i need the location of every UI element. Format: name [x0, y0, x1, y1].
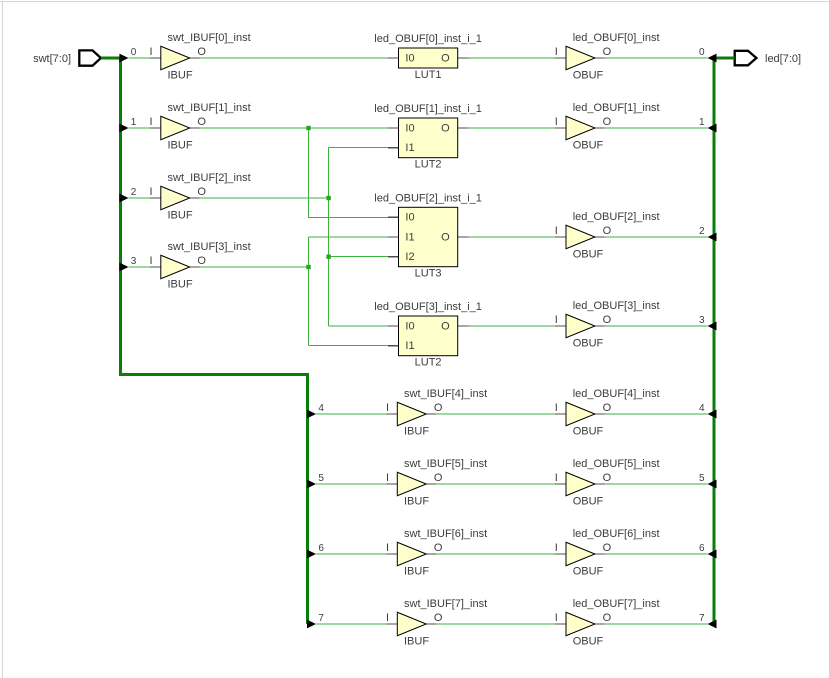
wire swt_IBUF_4 IBUF to OBUF: [436, 413, 555, 415]
svg-text:O: O: [603, 612, 612, 624]
svg-text:6: 6: [699, 543, 705, 554]
svg-text:OBUF: OBUF: [573, 69, 604, 81]
svg-text:I: I: [555, 225, 558, 237]
bus tap swt[4]: [307, 410, 316, 419]
svg-text:O: O: [441, 231, 450, 243]
svg-text:0: 0: [131, 47, 137, 58]
bus tap led[6]: [708, 550, 717, 559]
bus tap led[3]: [708, 322, 717, 331]
svg-text:O: O: [603, 314, 612, 326]
svg-text:I2: I2: [405, 251, 414, 263]
wire LUT to OBUF[2]: [468, 236, 555, 238]
svg-text:3: 3: [131, 256, 137, 267]
svg-text:O: O: [441, 122, 450, 134]
wire swt_IBUF_5 IBUF to OBUF: [436, 483, 555, 485]
svg-text:led_OBUF[7]_inst: led_OBUF[7]_inst: [573, 598, 660, 610]
svg-text:O: O: [434, 612, 443, 624]
svg-text:I: I: [555, 402, 558, 414]
bus tap swt[0]: [119, 54, 128, 63]
wire swt[2] tap to IBUF: [128, 197, 150, 199]
wire swt[0] tap to IBUF: [128, 57, 150, 59]
svg-text:IBUF: IBUF: [404, 495, 429, 507]
svg-text:O: O: [441, 320, 450, 332]
svg-text:O: O: [603, 542, 612, 554]
buffer swt_IBUF[7]_inst (IBUF): [386, 598, 487, 648]
junction swt_IBUF_3: [306, 265, 310, 269]
junction swt_IBUF_2 b: [326, 255, 330, 259]
svg-text:I0: I0: [405, 320, 414, 332]
svg-text:I0: I0: [405, 122, 414, 134]
bus wire led[7:0]: [714, 58, 735, 624]
wire LUT to OBUF[1]: [468, 127, 555, 129]
svg-text:led_OBUF[6]_inst: led_OBUF[6]_inst: [573, 528, 660, 540]
buffer swt_IBUF[0]_inst (IBUF): [150, 32, 251, 82]
svg-text:I: I: [386, 542, 389, 554]
svg-text:I: I: [555, 612, 558, 624]
svg-text:7: 7: [318, 613, 324, 624]
buffer led_OBUF[7]_inst (OBUF): [555, 598, 660, 648]
svg-text:1: 1: [699, 117, 705, 128]
svg-text:4: 4: [699, 403, 705, 414]
svg-text:O: O: [441, 52, 450, 64]
svg-text:O: O: [603, 402, 612, 414]
svg-text:led_OBUF[3]_inst: led_OBUF[3]_inst: [573, 300, 660, 312]
svg-text:6: 6: [318, 543, 324, 554]
svg-text:OBUF: OBUF: [573, 565, 604, 577]
buffer led_OBUF[0]_inst (OBUF): [555, 32, 660, 82]
wire swt_IBUF_3 to LUT2 I1 (lower): [309, 345, 389, 347]
lut led_OBUF[1]_inst_i_1 (LUT2): [374, 103, 482, 170]
wire swt_IBUF_1 to LUT2 I0: [199, 127, 388, 129]
svg-text:O: O: [197, 116, 206, 128]
wire led_OBUF_0 to bus tap: [605, 57, 708, 59]
svg-text:swt_IBUF[1]_inst: swt_IBUF[1]_inst: [168, 102, 251, 114]
svg-text:5: 5: [699, 473, 705, 484]
lut led_OBUF[3]_inst_i_1 (LUT2): [374, 301, 482, 368]
lut led_OBUF[0]_inst_i_1 (LUT1): [374, 33, 482, 81]
svg-text:I: I: [555, 472, 558, 484]
wire swt_IBUF_3 to junction: [199, 266, 308, 268]
wire swt[7] tap to IBUF: [316, 623, 386, 625]
svg-text:I: I: [555, 46, 558, 58]
buffer swt_IBUF[2]_inst (IBUF): [150, 172, 251, 222]
bus tap led[1]: [708, 124, 717, 133]
svg-text:swt[7:0]: swt[7:0]: [33, 53, 71, 65]
buffer swt_IBUF[6]_inst (IBUF): [386, 528, 487, 578]
svg-text:O: O: [197, 46, 206, 58]
junction swt_IBUF_2 a: [326, 196, 330, 200]
svg-text:swt_IBUF[0]_inst: swt_IBUF[0]_inst: [168, 32, 251, 44]
wire led_OBUF_6 to bus tap: [605, 553, 708, 555]
output port led[7:0]: [735, 51, 757, 66]
svg-text:I1: I1: [405, 340, 414, 352]
svg-text:LUT3: LUT3: [415, 268, 442, 280]
svg-text:O: O: [197, 186, 206, 198]
bus tap swt[7]: [307, 620, 316, 629]
panel left border: [2, 1, 4, 678]
svg-text:LUT2: LUT2: [415, 357, 442, 369]
svg-text:0: 0: [699, 47, 705, 58]
wire swt_IBUF_2 vertical: [328, 148, 330, 326]
svg-text:swt_IBUF[3]_inst: swt_IBUF[3]_inst: [168, 241, 251, 253]
buffer led_OBUF[1]_inst (OBUF): [555, 102, 660, 152]
wire swt[6] tap to IBUF: [316, 553, 386, 555]
bus tap led[4]: [708, 410, 717, 419]
wire swt_IBUF_6 IBUF to OBUF: [436, 553, 555, 555]
svg-text:OBUF: OBUF: [573, 139, 604, 151]
buffer swt_IBUF[3]_inst (IBUF): [150, 241, 251, 290]
wire LUT to OBUF[3]: [468, 325, 555, 327]
buffer led_OBUF[2]_inst (OBUF): [555, 211, 660, 260]
svg-text:I1: I1: [405, 231, 414, 243]
wire swt_IBUF_2 to junction: [199, 197, 328, 199]
svg-text:I: I: [555, 314, 558, 326]
svg-text:O: O: [197, 255, 206, 267]
wire led_OBUF_2 to bus tap: [605, 236, 708, 238]
svg-text:swt_IBUF[7]_inst: swt_IBUF[7]_inst: [404, 598, 487, 610]
wire led_OBUF_4 to bus tap: [605, 413, 708, 415]
wire swt[4] tap to IBUF: [316, 413, 386, 415]
svg-text:OBUF: OBUF: [573, 635, 604, 647]
svg-text:swt_IBUF[5]_inst: swt_IBUF[5]_inst: [404, 458, 487, 470]
svg-text:OBUF: OBUF: [573, 495, 604, 507]
wire swt[5] tap to IBUF: [316, 483, 386, 485]
bus tap led[5]: [708, 480, 717, 489]
svg-text:1: 1: [131, 117, 137, 128]
wire led_OBUF_3 to bus tap: [605, 325, 708, 327]
svg-text:led_OBUF[2]_inst: led_OBUF[2]_inst: [573, 211, 660, 223]
buffer led_OBUF[4]_inst (OBUF): [555, 388, 660, 438]
wire led_OBUF_5 to bus tap: [605, 483, 708, 485]
buffer led_OBUF[5]_inst (OBUF): [555, 458, 660, 508]
svg-text:I: I: [386, 612, 389, 624]
svg-text:IBUF: IBUF: [404, 635, 429, 647]
svg-text:IBUF: IBUF: [168, 209, 193, 221]
svg-text:led_OBUF[5]_inst: led_OBUF[5]_inst: [573, 458, 660, 470]
bus tap swt[2]: [119, 194, 128, 203]
bus tap swt[6]: [307, 550, 316, 559]
buffer led_OBUF[6]_inst (OBUF): [555, 528, 660, 578]
bus tap led[2]: [708, 233, 717, 242]
svg-text:led_OBUF[1]_inst_i_1: led_OBUF[1]_inst_i_1: [374, 103, 482, 115]
svg-text:led_OBUF[2]_inst_i_1: led_OBUF[2]_inst_i_1: [374, 193, 482, 205]
svg-text:led_OBUF[0]_inst_i_1: led_OBUF[0]_inst_i_1: [374, 33, 482, 45]
svg-text:swt_IBUF[2]_inst: swt_IBUF[2]_inst: [168, 172, 251, 184]
svg-text:OBUF: OBUF: [573, 248, 604, 260]
svg-text:IBUF: IBUF: [168, 278, 193, 290]
wire led_OBUF_1 to bus tap: [605, 127, 708, 129]
svg-text:O: O: [603, 116, 612, 128]
svg-text:O: O: [603, 46, 612, 58]
wire swt_IBUF_3 vertical: [308, 237, 310, 346]
svg-text:5: 5: [318, 473, 324, 484]
svg-text:IBUF: IBUF: [168, 139, 193, 151]
bus tap led[7]: [708, 620, 717, 629]
svg-text:I: I: [386, 402, 389, 414]
svg-text:I: I: [150, 255, 153, 267]
svg-text:LUT2: LUT2: [415, 159, 442, 171]
svg-text:IBUF: IBUF: [168, 69, 193, 81]
bus tap led[0]: [708, 54, 717, 63]
svg-text:I: I: [150, 46, 153, 58]
svg-text:I: I: [150, 116, 153, 128]
svg-text:I0: I0: [405, 212, 414, 224]
wire swt_IBUF_0 to LUT1 I0: [199, 57, 388, 59]
wire swt_IBUF_2 to LUT2 I1: [329, 147, 388, 149]
input port swt[7:0]: [79, 50, 101, 65]
svg-text:IBUF: IBUF: [404, 565, 429, 577]
svg-text:I: I: [150, 186, 153, 198]
wire LUT to OBUF[0]: [468, 57, 555, 59]
bus tap swt[3]: [119, 263, 128, 272]
buffer led_OBUF[3]_inst (OBUF): [555, 300, 660, 350]
junction swt_IBUF_1: [306, 126, 310, 130]
svg-text:led_OBUF[3]_inst_i_1: led_OBUF[3]_inst_i_1: [374, 301, 482, 313]
svg-text:O: O: [603, 472, 612, 484]
svg-text:3: 3: [699, 315, 705, 326]
bus tap swt[5]: [307, 480, 316, 489]
svg-text:led[7:0]: led[7:0]: [765, 53, 801, 65]
svg-text:I1: I1: [405, 142, 414, 154]
svg-text:I: I: [555, 542, 558, 554]
svg-text:LUT1: LUT1: [415, 69, 442, 81]
svg-text:led_OBUF[0]_inst: led_OBUF[0]_inst: [573, 32, 660, 44]
svg-text:I: I: [386, 472, 389, 484]
svg-text:IBUF: IBUF: [404, 425, 429, 437]
svg-text:2: 2: [131, 187, 137, 198]
svg-text:swt_IBUF[6]_inst: swt_IBUF[6]_inst: [404, 528, 487, 540]
lut led_OBUF[2]_inst_i_1 (LUT3): [374, 193, 482, 280]
svg-text:I: I: [555, 116, 558, 128]
svg-text:OBUF: OBUF: [573, 425, 604, 437]
svg-text:O: O: [434, 542, 443, 554]
svg-text:2: 2: [699, 226, 705, 237]
buffer swt_IBUF[4]_inst (IBUF): [386, 388, 487, 438]
wire swt_IBUF_1 branch down to LUT3 I0: [309, 128, 389, 217]
wire swt_IBUF_3 to LUT3 I1: [309, 236, 389, 238]
svg-text:swt_IBUF[4]_inst: swt_IBUF[4]_inst: [404, 388, 487, 400]
svg-text:led_OBUF[4]_inst: led_OBUF[4]_inst: [573, 388, 660, 400]
svg-text:4: 4: [318, 403, 324, 414]
bus tap swt[1]: [119, 124, 128, 133]
wire swt[3] tap to IBUF: [128, 266, 150, 268]
wire swt_IBUF_7 IBUF to OBUF: [436, 623, 555, 625]
svg-text:O: O: [434, 472, 443, 484]
svg-text:I0: I0: [405, 52, 414, 64]
wire swt_IBUF_2 to LUT2 I0 (lower): [329, 325, 388, 327]
svg-text:O: O: [434, 402, 443, 414]
wire swt_IBUF_2 to LUT3 I2: [329, 256, 388, 258]
bus wire swt[7:0]: [101, 58, 308, 624]
buffer swt_IBUF[1]_inst (IBUF): [150, 102, 251, 152]
buffer swt_IBUF[5]_inst (IBUF): [386, 458, 487, 508]
panel top border: [0, 1, 829, 3]
svg-text:O: O: [603, 225, 612, 237]
wire led_OBUF_7 to bus tap: [605, 623, 708, 625]
svg-text:OBUF: OBUF: [573, 337, 604, 349]
svg-text:7: 7: [699, 613, 705, 624]
wire swt[1] tap to IBUF: [128, 127, 150, 129]
svg-text:led_OBUF[1]_inst: led_OBUF[1]_inst: [573, 102, 660, 114]
